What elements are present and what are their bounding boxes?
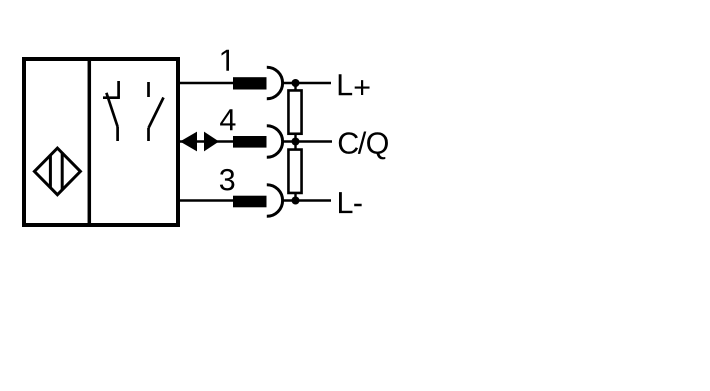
pin label 1 [222, 50, 229, 71]
NO switch contact [149, 82, 164, 141]
inductive proximity sensor symbol (diamond with two bars) [34, 148, 80, 195]
connector socket pin 3 [267, 185, 283, 217]
stub node L+ to load R1 [294, 83, 296, 90]
net label L- [339, 192, 362, 213]
crimp terminal pin 1 [233, 77, 267, 89]
sensor housing box [24, 59, 178, 225]
wire pin 4 [180, 140, 233, 142]
connector socket pin 4 [267, 126, 283, 158]
stub R2 to node L- [294, 193, 296, 201]
wire to C/Q [283, 140, 332, 142]
stub R1 to node C/Q [294, 134, 296, 149]
wire to L+ [283, 82, 331, 84]
NC switch contact [103, 81, 120, 141]
crimp terminal pin 4 [233, 136, 267, 148]
net label C/Q [339, 132, 388, 160]
junction node L+ [292, 79, 300, 87]
crimp terminal pin 3 [233, 196, 267, 208]
junction node C/Q [292, 138, 300, 146]
load resistor R1 [288, 90, 301, 133]
connector socket pin 1 [267, 67, 283, 99]
load resistor R2 [288, 150, 301, 193]
pin label 3 [220, 169, 234, 191]
wire pin 1 [180, 82, 233, 84]
wire to L- [283, 199, 331, 201]
housing divider [88, 59, 92, 225]
net label L+ [339, 74, 370, 95]
wire pin 3 [180, 199, 233, 201]
pin label 4 [220, 109, 235, 130]
junction node L- [292, 197, 300, 205]
bidirectional IO-Link arrow [180, 132, 219, 152]
